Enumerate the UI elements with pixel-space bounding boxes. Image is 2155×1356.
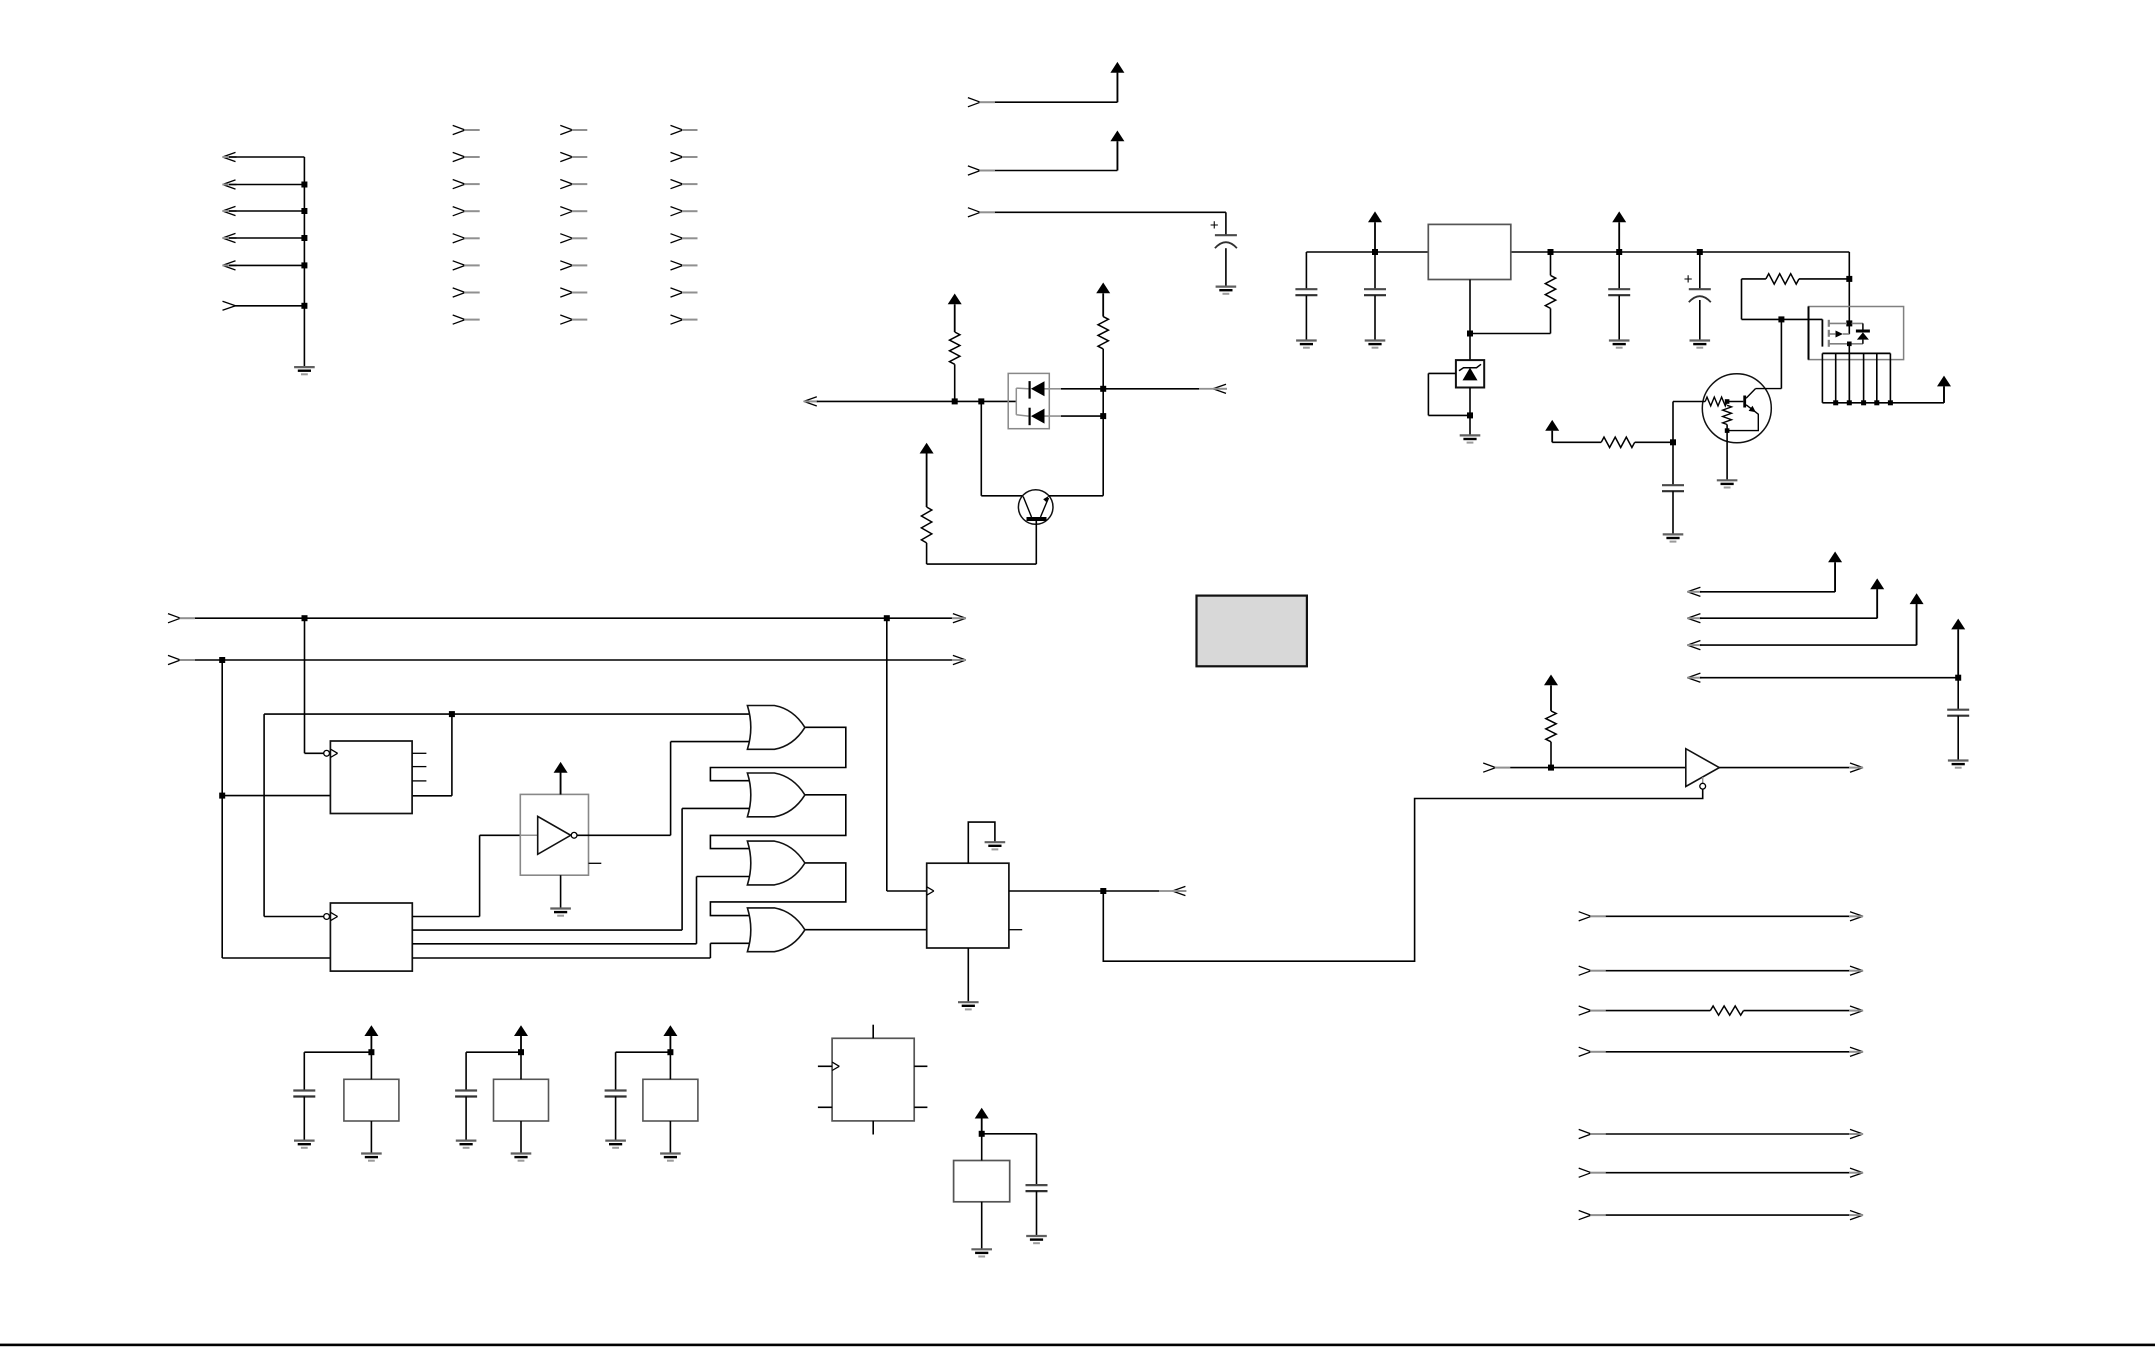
svg-text:+: + xyxy=(1210,217,1219,234)
svg-text:+: + xyxy=(1684,271,1693,288)
